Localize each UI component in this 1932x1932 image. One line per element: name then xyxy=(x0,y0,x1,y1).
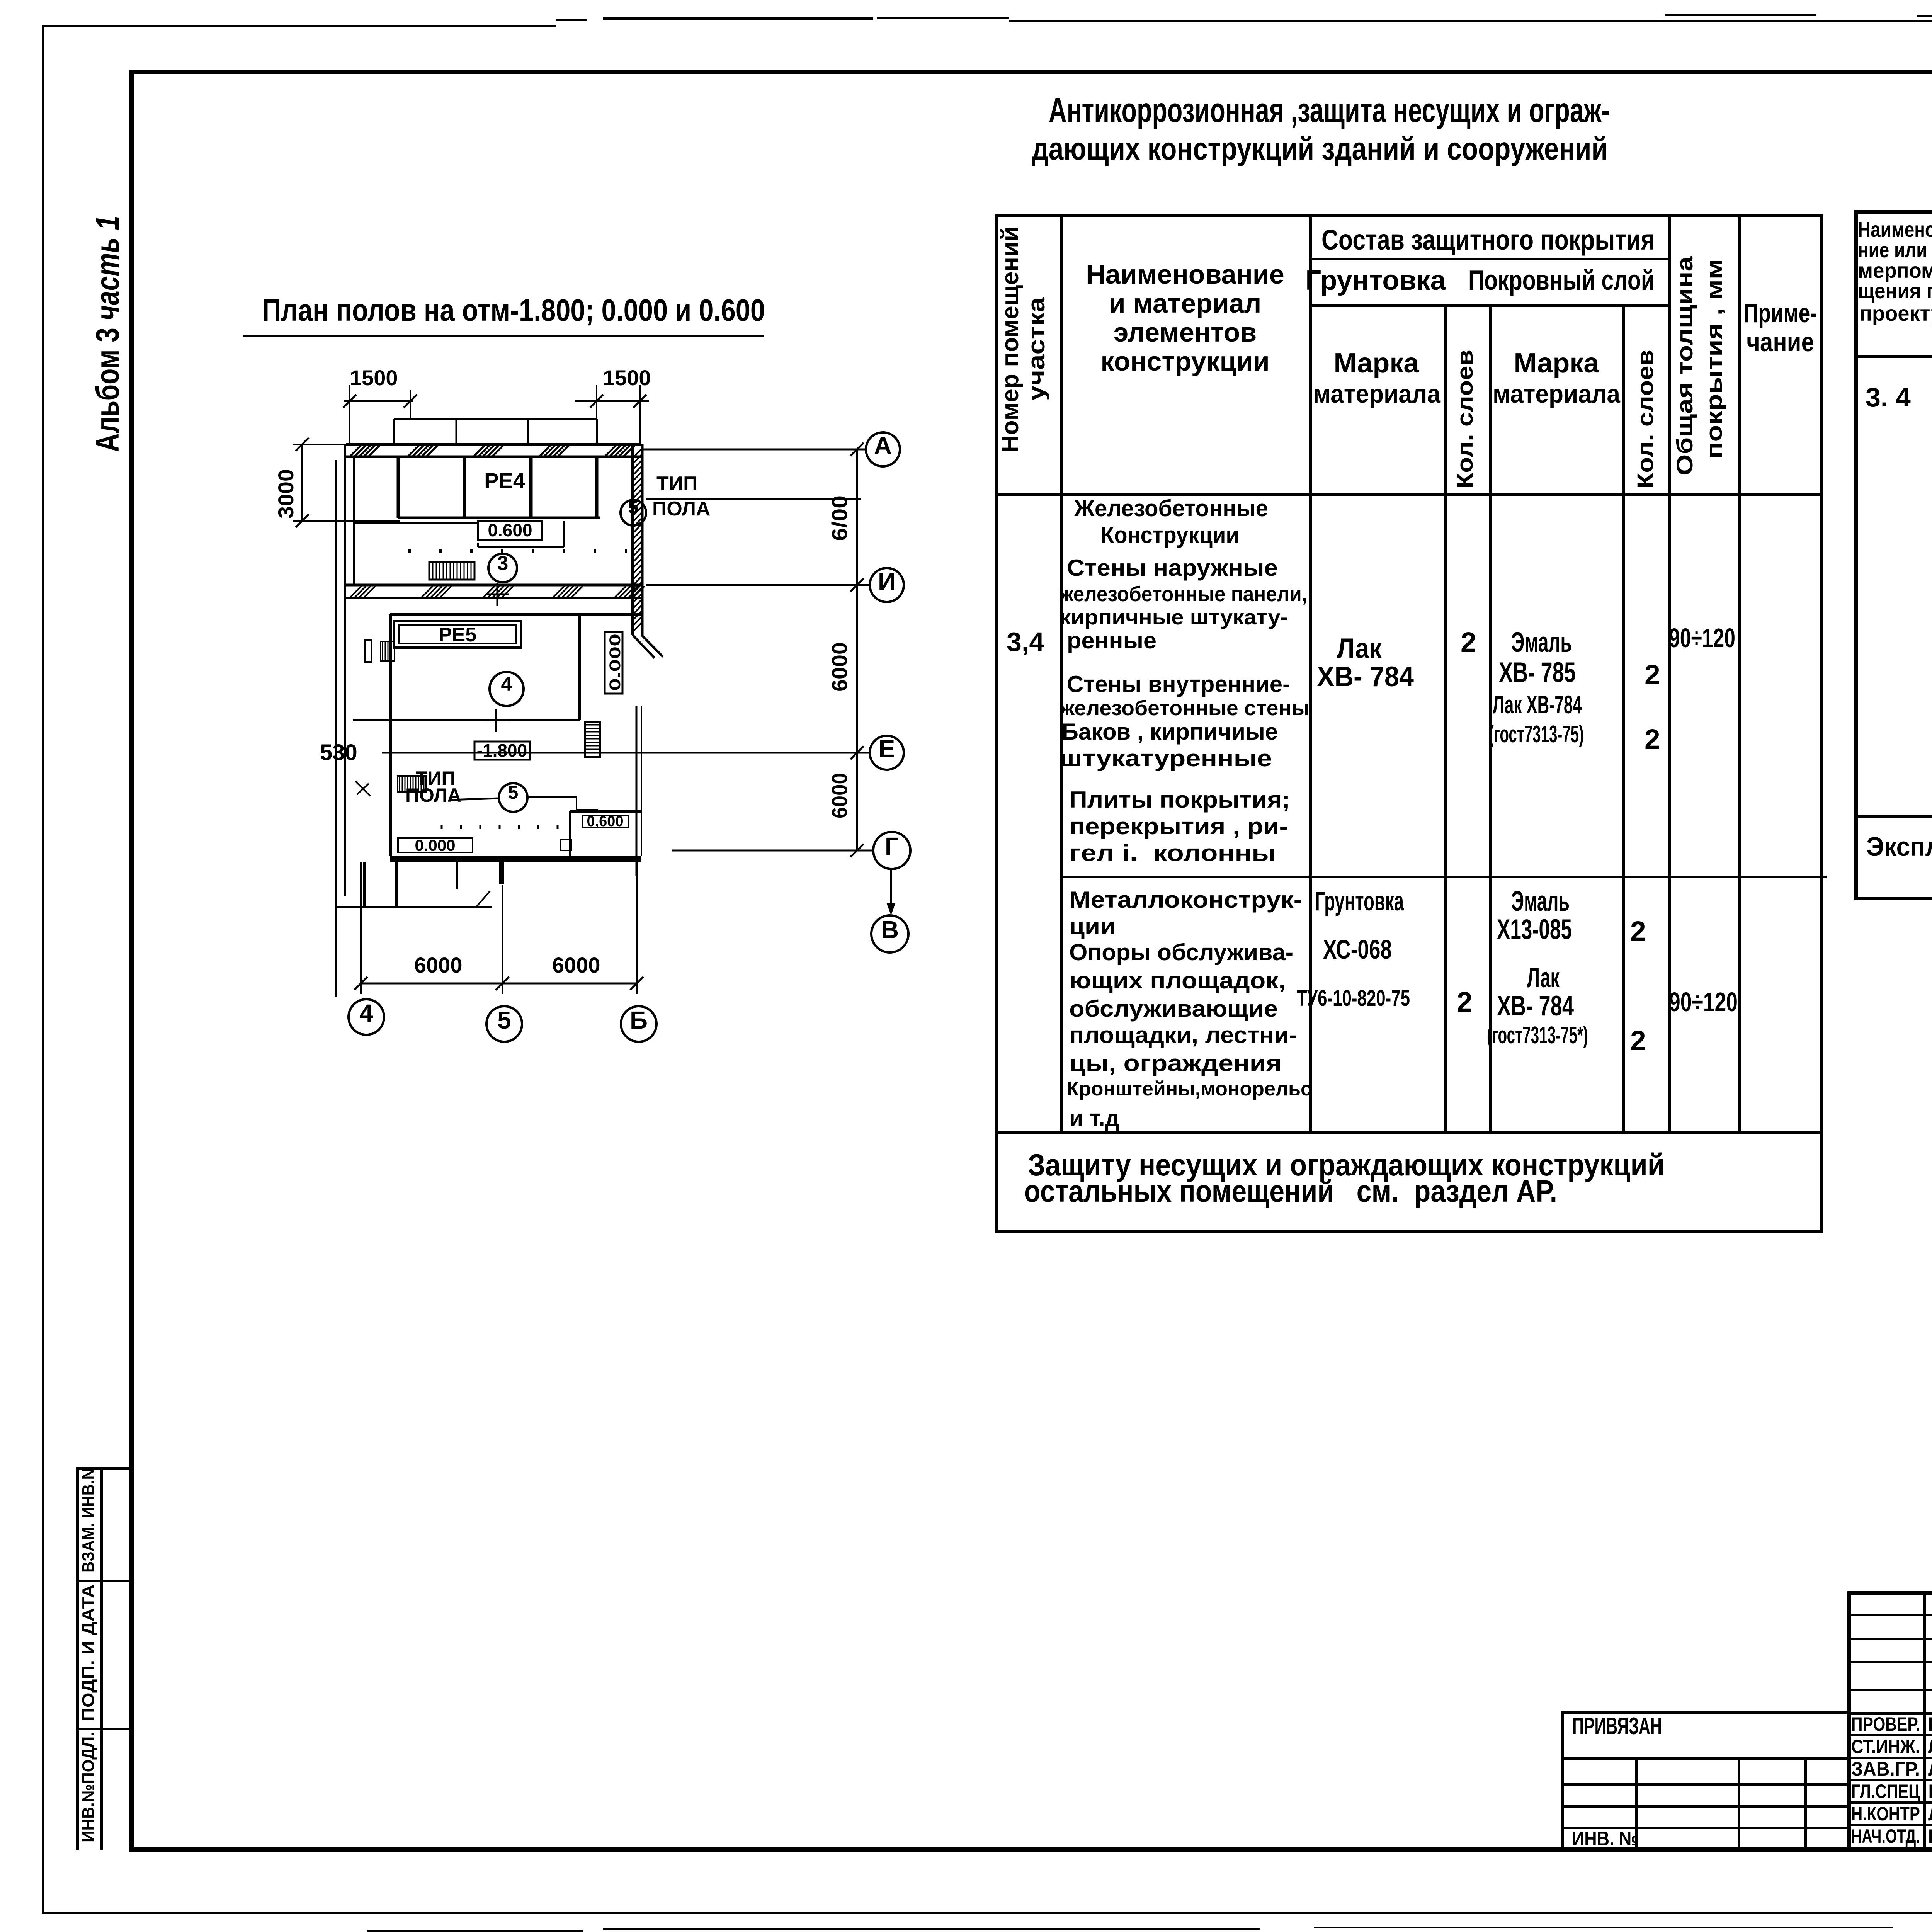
plan labels xyxy=(484,470,525,492)
central table header text xyxy=(998,226,1022,453)
plan title xyxy=(262,295,765,326)
privyazan box xyxy=(1561,1711,1849,1714)
central table footer note xyxy=(1028,1150,1665,1180)
main title xyxy=(1049,93,1610,128)
right table header text xyxy=(1858,219,1932,240)
right table body xyxy=(1866,384,1911,411)
scan artifacts top xyxy=(556,19,587,21)
central table body text xyxy=(1007,628,1044,655)
outer thin border xyxy=(42,25,556,27)
right table footer xyxy=(1866,833,1932,860)
title block xyxy=(1847,1591,1932,1595)
scan artifacts bottom xyxy=(367,1930,583,1932)
main thick frame xyxy=(129,70,1932,74)
left stamp boxes xyxy=(76,1467,79,1850)
central table xyxy=(995,214,1823,217)
album label xyxy=(91,216,124,452)
right table lines xyxy=(1854,210,1932,214)
